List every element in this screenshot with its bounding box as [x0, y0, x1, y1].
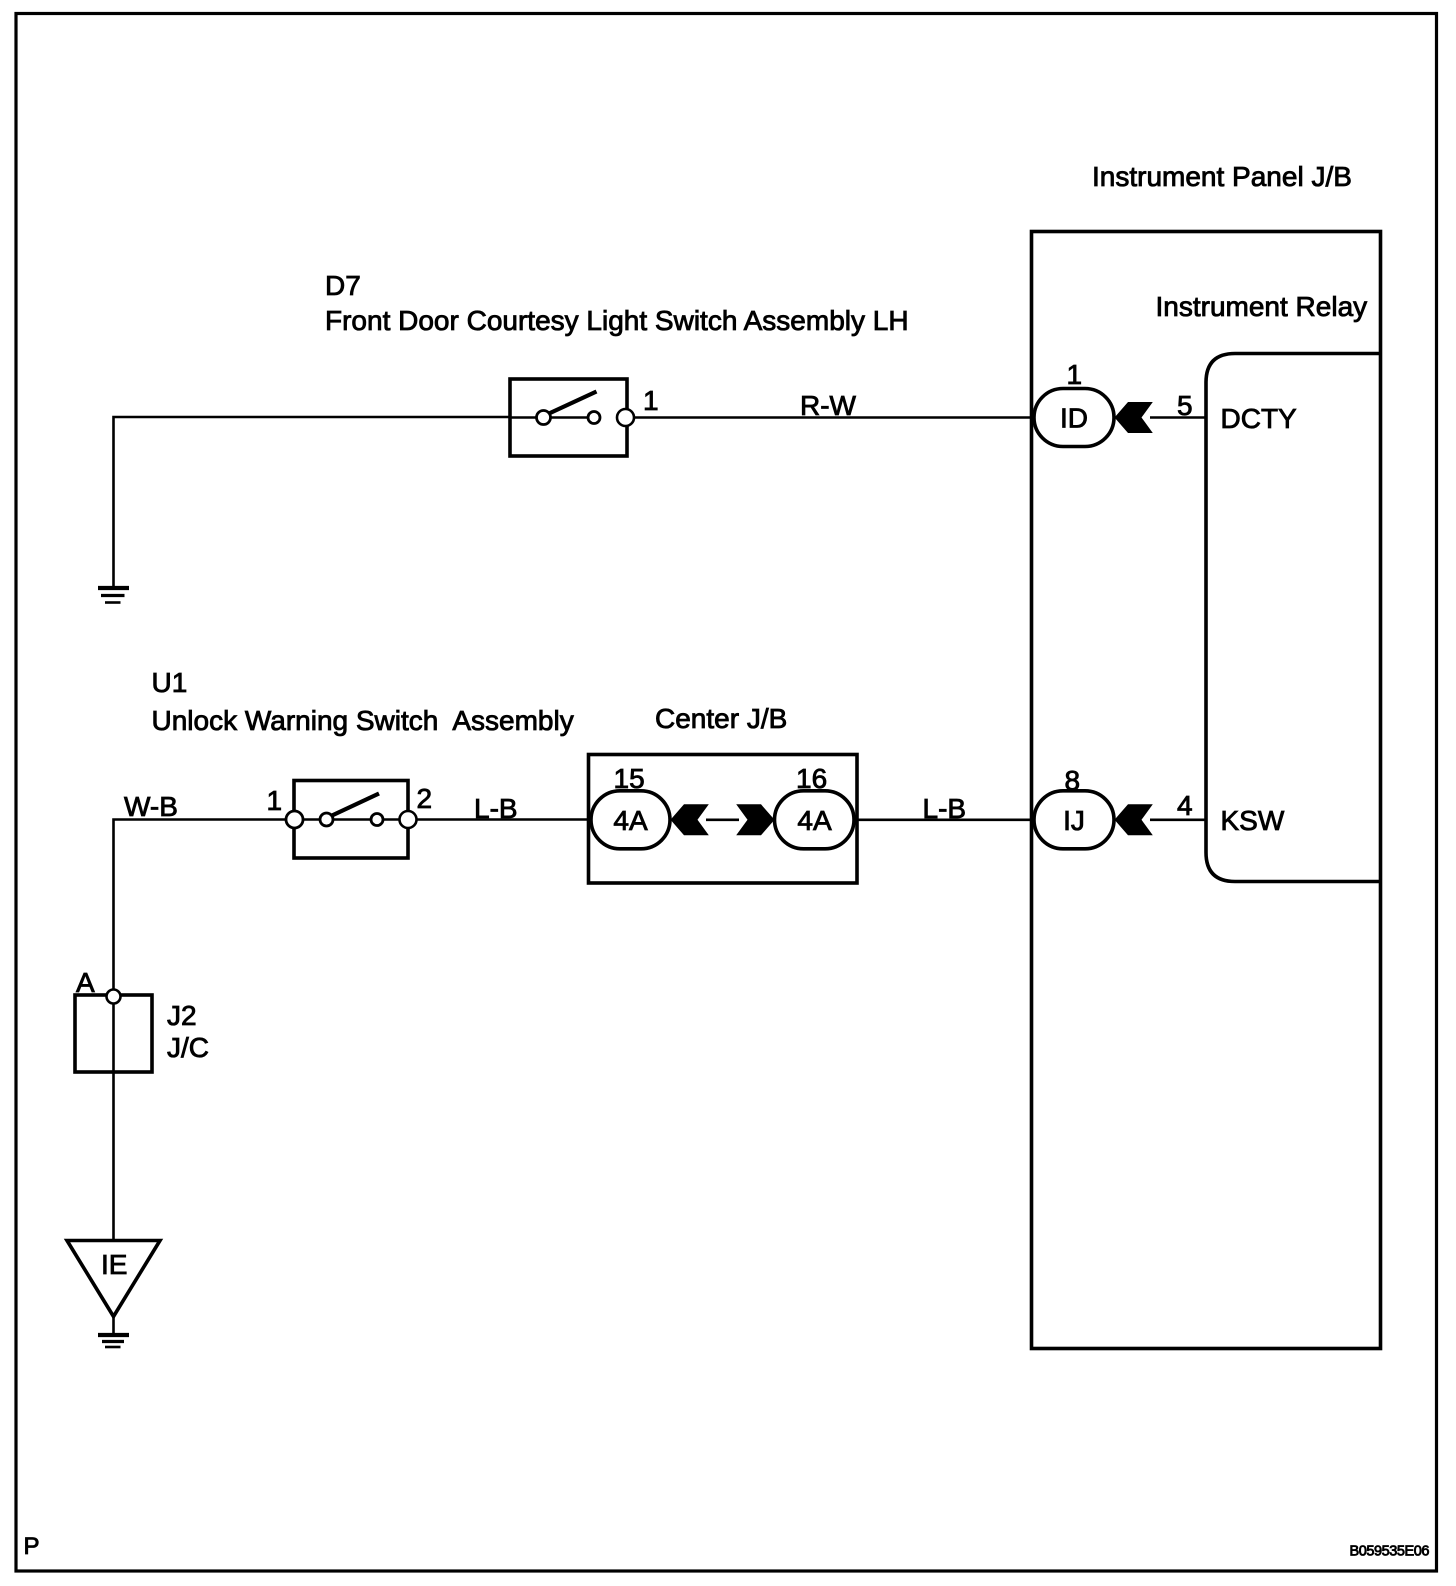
- svg-text:1: 1: [643, 385, 659, 416]
- ground (row 1): [98, 588, 129, 603]
- fuse connector 4A (16): [775, 791, 855, 849]
- svg-text:2: 2: [417, 783, 433, 814]
- svg-text:U1: U1: [152, 667, 188, 698]
- svg-text:IJ: IJ: [1063, 805, 1085, 836]
- svg-text:Center J/B: Center J/B: [655, 703, 787, 734]
- wire L-B: Center J/B to IJ: [857, 818, 1034, 821]
- svg-text:Instrument Relay: Instrument Relay: [1156, 291, 1368, 322]
- Instrument Relay box U2: [1206, 354, 1381, 882]
- wire: relay KSW to arrow: [1150, 818, 1206, 821]
- svg-text:J/C: J/C: [167, 1032, 209, 1063]
- svg-text:D7: D7: [325, 270, 361, 301]
- svg-text:ID: ID: [1060, 403, 1088, 434]
- wire: IE to ground: [112, 1314, 115, 1334]
- svg-text:Instrument Panel J/B: Instrument Panel J/B: [1092, 161, 1352, 192]
- wire between arrows: [706, 818, 739, 821]
- svg-text:4A: 4A: [613, 805, 648, 836]
- svg-text:R-W: R-W: [800, 390, 857, 421]
- svg-text:KSW: KSW: [1221, 805, 1285, 836]
- connector IJ: [1034, 791, 1114, 849]
- svg-text:1: 1: [267, 785, 283, 816]
- Instrument Panel J/B box: [1032, 232, 1381, 1349]
- svg-text:L-B: L-B: [923, 793, 967, 824]
- svg-text:IE: IE: [101, 1249, 127, 1280]
- svg-text:Unlock Warning Switch Assembl: Unlock Warning Switch Assembly: [152, 705, 574, 736]
- arrow into 4A (16): [736, 804, 774, 835]
- svg-text:4A: 4A: [797, 805, 832, 836]
- ground (row 2): [98, 1335, 129, 1347]
- junction J2 J/C box: [75, 995, 152, 1072]
- svg-text:DCTY: DCTY: [1221, 403, 1298, 434]
- arrow into IJ: [1115, 804, 1153, 835]
- wire: W-B riser to node A and IE triangle: [114, 820, 295, 1241]
- wire L-B: U1 pin 2 to Center J/B: [416, 818, 589, 821]
- svg-text:Front Door Courtesy Light Swit: Front Door Courtesy Light Switch Assembl…: [325, 305, 909, 336]
- ground connector IE triangle: [67, 1241, 160, 1317]
- svg-text:B059535E06: B059535E06: [1350, 1544, 1430, 1560]
- arrow into 4A (15): [671, 804, 709, 835]
- fuse connector 4A (15): [591, 791, 670, 849]
- svg-text:5: 5: [1177, 390, 1193, 421]
- svg-text:W-B: W-B: [124, 791, 178, 822]
- connector ID: [1034, 389, 1114, 447]
- svg-text:P: P: [24, 1533, 40, 1560]
- switch D7 (Front Door Courtesy Light Switch Assembly LH): [510, 379, 634, 456]
- wire: relay DCTY to arrow: [1150, 416, 1206, 419]
- Center J/B box: [589, 755, 858, 884]
- svg-text:4: 4: [1177, 790, 1193, 821]
- arrow into ID: [1115, 402, 1153, 433]
- svg-text:J2: J2: [167, 1000, 197, 1031]
- svg-text:L-B: L-B: [474, 793, 518, 824]
- switch U1 (Unlock Warning Switch Assembly): [286, 781, 417, 859]
- wire: row1 ground riser: [114, 417, 511, 586]
- node A circle: [107, 990, 121, 1004]
- svg-text:1: 1: [1067, 359, 1083, 390]
- wire R-W: D7 pin 1 to ID: [634, 416, 1034, 419]
